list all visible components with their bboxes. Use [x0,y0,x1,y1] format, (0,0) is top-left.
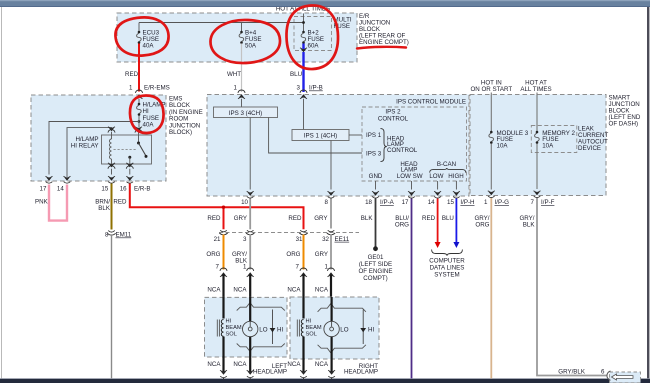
svg-text:I/P-B: I/P-B [309,85,323,92]
svg-text:SOL: SOL [306,332,317,338]
relay switch [138,135,140,143]
svg-text:3: 3 [243,236,247,243]
pin 1 I/P-G [484,191,509,206]
node junction below fuse [138,120,141,123]
svg-text:I/P-G: I/P-G [495,199,510,206]
svg-text:RED: RED [207,215,221,222]
wire PNK loop pin17 to pin14 [35,185,67,221]
wire bus from feed to fuses [139,14,304,32]
svg-text:IPS 1: IPS 1 [366,132,382,139]
block IPS CONTROL MODULE [207,95,469,197]
svg-text:NCA: NCA [233,361,247,368]
svg-text:ORG: ORG [286,251,300,258]
annotation red circle ECU3 [115,17,168,55]
svg-text:15: 15 [447,199,454,206]
labels NCA below right box [287,361,328,368]
wires IPS2 to bottom pins [376,181,457,190]
labels NCA below left box [207,361,247,368]
svg-text:OF ENGINE: OF ENGINE [358,268,392,275]
svg-text:NCA: NCA [207,287,221,294]
window title bar [0,0,650,7]
wire GRY right bulb [315,235,331,271]
wire GRY pin10 to EE11 [234,199,250,230]
label LOW HIGH [429,173,463,180]
solenoid HI BEAM SOL left [217,319,242,338]
wire ORG left sol [206,235,223,271]
wire IPS3 to IPS2 control input [269,118,362,154]
fuse B+2 60A [301,30,324,50]
connector chevron below B+2 fuse [300,48,307,53]
svg-text:HI: HI [306,319,312,325]
svg-text:HEADLAMP: HEADLAMP [344,369,378,376]
wire GRY/ORG pin 1 to bottom [474,198,491,378]
svg-text:NCA: NCA [315,287,329,294]
wire from pin into H/LAMP HI fuse [138,99,140,104]
svg-text:(LEFT SIDE: (LEFT SIDE [359,261,392,268]
svg-text:8: 8 [325,199,329,206]
wire GRY/BLK pin 7 to bottom right connector [519,198,607,376]
svg-text:COMPT): COMPT) [363,275,387,282]
wire gray below EM11 to bottom [111,235,113,378]
svg-text:7: 7 [216,263,220,270]
svg-text:1: 1 [129,85,133,92]
block RIGHT HEADLAMP [290,297,379,376]
wires NCA into left headlamp [207,275,250,299]
svg-text:WHT: WHT [227,71,241,78]
svg-text:1: 1 [243,263,247,270]
ground GE01 [358,246,392,282]
pin chevron into EMS block [136,94,143,99]
right housing top bracket [318,303,366,311]
label HEAD LAMP LOW SW [397,161,423,180]
block EMS BLOCK [31,95,203,181]
left housing top bracket [237,303,285,311]
brace computer data lines [432,250,463,256]
annotation red circle B+2 [286,5,338,69]
bottom connectors left [220,370,254,379]
wire fuse to junction and to relay switch [138,116,141,136]
connector EE11 inline row [214,233,359,243]
svg-text:IPS 1 (4CH): IPS 1 (4CH) [304,133,337,140]
fuse MODULE 3 10A [489,130,529,149]
wire ORG right sol [286,235,303,271]
svg-text:6: 6 [601,368,605,375]
svg-text:GRY/BLK: GRY/BLK [558,368,586,375]
pin 17 [402,191,415,206]
svg-text:16: 16 [120,186,127,193]
svg-text:B-CAN: B-CAN [437,161,456,168]
svg-text:ORG: ORG [475,222,489,229]
connector 6 at bottom right [607,371,641,383]
svg-text:I/P-H: I/P-H [460,199,474,206]
svg-text:NCA: NCA [287,361,301,368]
svg-text:GND: GND [369,173,383,180]
svg-text:50A: 50A [245,43,257,50]
svg-text:GRY: GRY [315,251,328,258]
svg-text:18: 18 [365,199,372,206]
svg-text:BLU: BLU [442,215,454,222]
wire IPS3 to pin 10 [249,118,251,190]
wire MODULE3 fuse to pin 1 [490,144,492,190]
svg-text:IPS 3 (4CH): IPS 3 (4CH) [229,110,262,117]
connector halves at EE11 [219,230,335,235]
window right border [647,7,649,383]
svg-text:LO: LO [340,326,348,333]
svg-text:NCA: NCA [315,361,329,368]
svg-text:NCA: NCA [233,287,247,294]
wire BRN/BLK pin15 to EM11 [95,184,111,230]
svg-text:15: 15 [101,186,108,193]
wire junction to pin 17 [49,122,139,175]
wires relay to block bottom pins [112,169,130,175]
label E/R JUNCTION BLOCK location [359,13,409,46]
svg-text:DEVICE: DEVICE [578,145,601,152]
svg-text:COMPUTER: COMPUTER [429,258,465,265]
block IPS 2 CONTROL [362,107,467,181]
svg-text:40A: 40A [143,122,155,129]
pin 14 [428,191,441,206]
wire BLU B-CAN high [442,199,460,249]
wire RED B-CAN low [422,199,441,249]
svg-text:EM11: EM11 [116,232,132,239]
svg-text:HEADLAMP: HEADLAMP [253,369,287,376]
pin 14 at EMS bottom [57,176,71,192]
svg-text:17: 17 [402,199,409,206]
svg-text:40A: 40A [143,43,155,50]
svg-text:BLK: BLK [98,205,111,212]
bottom connectors right [300,370,335,379]
svg-text:BLK: BLK [523,222,536,229]
label COMPUTER DATA LINES SYSTEM [429,258,465,279]
wire RED pin16 feed to headlamp drops [113,184,303,230]
wires inside right headlamp down [304,297,332,372]
block LEFT HEADLAMP [205,297,288,375]
wire MEMORY2 fuse to pin 7 [536,144,538,190]
wires NCA into right headlamp [287,275,331,299]
svg-text:ALL TIMES: ALL TIMES [520,86,551,93]
headlamp connectors row [220,268,335,277]
wire BLU pin to IPS1 box [303,99,305,130]
svg-text:GE01: GE01 [368,254,384,261]
annotation red circle B+4 [210,20,280,63]
right housing bottom bracket [318,345,366,353]
svg-text:HI: HI [226,319,232,325]
pin 8 [325,191,335,206]
svg-text:BEAM: BEAM [306,325,322,331]
svg-text:E/R-B: E/R-B [134,186,151,193]
fuse H/LAMP HI 40A [137,102,166,129]
block LEAK CURRENT AUTOCUT DEVICE [531,126,608,153]
svg-text:8: 8 [105,232,109,239]
connector below relay coil [108,163,115,169]
svg-text:I/P-A: I/P-A [380,199,395,206]
svg-text:31: 31 [296,236,303,243]
label HEAD LAMP CONTROL [387,135,418,154]
solenoid HI BEAM SOL right [297,319,322,338]
svg-text:RED: RED [113,199,127,206]
svg-text:NCA: NCA [287,287,301,294]
brace B-CAN [430,168,466,173]
svg-text:3: 3 [297,85,301,92]
svg-text:10A: 10A [542,142,554,149]
svg-text:RED: RED [288,215,302,222]
wire BLU from B+2 fuse to IPS pin 3 I/P-B [290,44,323,94]
relay dashed link [114,149,138,151]
pin chevrons into IPS module [238,94,307,99]
svg-text:CONTROL: CONTROL [378,115,409,122]
svg-text:10: 10 [241,199,248,206]
block MULTI FUSE inner box [294,17,352,51]
svg-text:LOW SW: LOW SW [397,173,423,180]
svg-text:BLK: BLK [361,215,374,222]
bulb LO left [243,321,268,336]
wires inside left headlamp down [224,297,251,372]
svg-text:RED: RED [125,71,139,78]
wire feed to MODULE 3 fuse [490,93,492,133]
connector EM11 [105,231,132,239]
svg-text:1: 1 [484,199,488,206]
svg-text:HI: HI [277,326,283,333]
annotation red circle H/LAMP HI fuse [130,96,164,134]
pin 16 at EMS bottom, connector E/R-B [120,176,151,192]
svg-text:E/R-EMS: E/R-EMS [144,85,170,92]
svg-text:LOW: LOW [429,173,443,180]
bottom status bar [0,379,650,383]
svg-text:HIGH: HIGH [448,173,463,180]
svg-text:14: 14 [428,199,435,206]
block SMART JUNCTION BLOCK [470,95,641,196]
svg-text:HI RELAY: HI RELAY [71,143,99,150]
svg-text:17: 17 [40,186,47,193]
fuse ECU3 40A [137,30,160,50]
svg-text:IPS CONTROL MODULE: IPS CONTROL MODULE [396,99,466,106]
diode HI element left [270,310,284,345]
connector into relay switch [135,127,142,133]
pin 7 I/P-F [531,191,555,206]
svg-text:GRY: GRY [314,215,327,222]
svg-text:SOL: SOL [226,332,237,338]
wire IPS1 to pin 8 [330,141,332,190]
fuse B+4 50A [239,30,261,50]
pin 15 I/P-H [447,191,475,206]
svg-text:14: 14 [57,186,64,193]
svg-text:7: 7 [296,263,300,270]
svg-text:CONTROL: CONTROL [387,147,418,154]
svg-text:I/P-F: I/P-F [541,199,555,206]
svg-text:LO: LO [259,326,267,333]
svg-text:ORG: ORG [395,222,409,229]
label HOT AT ALL TIMES (right feed) [520,79,551,93]
svg-text:ORG: ORG [206,251,220,258]
wire GRY/BLK left bulb [232,235,250,271]
relay H/LAMP HI RELAY [71,135,152,164]
connector into relay coil [108,127,115,133]
svg-text:1: 1 [234,85,238,92]
svg-text:HI: HI [368,326,374,333]
svg-text:10A: 10A [497,142,509,149]
pin 17 at EMS bottom [40,176,53,192]
pin 10 [241,191,254,206]
relay coil [110,135,112,164]
svg-text:GRY: GRY [234,215,247,222]
svg-text:EE11: EE11 [335,236,350,243]
annotation red underline [357,47,406,49]
window left border [1,7,2,379]
wire pin 14 to relay coil [67,128,112,177]
svg-text:BEAM: BEAM [226,325,242,331]
svg-text:BLOCK): BLOCK) [169,129,192,136]
pin 15 at EMS bottom [101,176,115,192]
svg-text:21: 21 [214,236,221,243]
wire IPS1 to IPS2 control input [349,134,362,136]
pin 18 I/P-A [365,191,395,206]
wire WHT from B+4 fuse to IPS pin 1 [227,44,245,94]
svg-text:SYSTEM: SYSTEM [434,272,459,279]
wire BLK pin18 to ground [361,199,376,247]
left housing bottom bracket [237,344,285,352]
bulb LO right [324,321,349,336]
wire GRY pin8 to EE11 [314,199,331,229]
fuse MEMORY 2 10A [535,130,576,149]
wire RED from ECU3 fuse to E/R-EMS pin 1 [125,44,170,94]
svg-text:NCA: NCA [207,361,221,368]
node junction at B+2 feed [302,21,305,24]
brace head lamp control [381,129,387,162]
diode HI element right [360,310,374,345]
box IPS 3 (4CH) [214,107,278,118]
svg-text:PNK: PNK [35,199,49,206]
svg-text:32: 32 [322,236,329,243]
svg-text:DATA LINES: DATA LINES [430,265,465,272]
svg-text:IPS 3: IPS 3 [366,151,382,158]
wire feed to MEMORY 2 fuse [536,93,538,133]
box IPS 1 (4CH) [292,130,349,141]
svg-text:ENGINE COMPT): ENGINE COMPT) [359,39,409,46]
svg-text:ON OR START: ON OR START [470,86,512,93]
svg-text:OF DASH): OF DASH) [609,121,639,128]
label HOT IN ON OR START [470,79,512,93]
svg-text:7: 7 [531,199,535,206]
wire BLU/ORG pin17 to bottom [395,199,412,379]
connector below relay switch [126,163,133,169]
svg-text:60A: 60A [308,43,320,50]
svg-text:BLU: BLU [290,71,302,78]
block E/R JUNCTION BLOCK [117,13,357,62]
svg-text:RED: RED [422,215,436,222]
wire WHT pin to IPS3 box [241,99,243,107]
